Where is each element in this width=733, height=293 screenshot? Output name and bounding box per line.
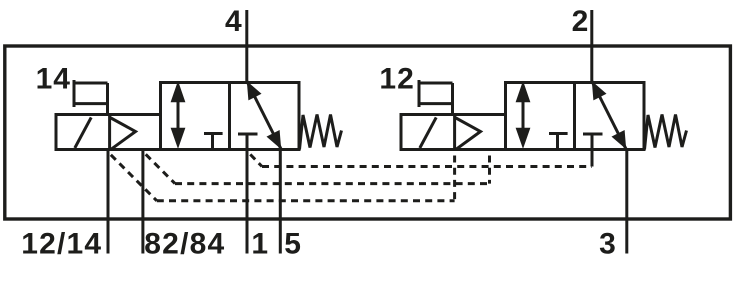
wire: pilot port 12/14 line: [107, 150, 110, 254]
valve V2 blocked port T (right chamber): [583, 134, 603, 162]
valve V2 body: [506, 83, 645, 150]
wire: pilot exhaust 82/84 line: [141, 150, 144, 254]
valve V1 flow arrow (right chamber, diagonal double arrow): [247, 81, 281, 149]
solenoid coil K2 slash: [420, 117, 436, 148]
svg-text:5: 5: [284, 227, 301, 260]
solenoid coil K2 box: [401, 115, 506, 150]
svg-text:4: 4: [225, 5, 242, 38]
solenoid coil K1 slash: [75, 117, 91, 148]
svg-text:2: 2: [572, 5, 589, 38]
pilot amplifier triangle V1: [110, 118, 136, 150]
wire: port 5 line: [279, 150, 282, 254]
wire: port 3 line: [625, 150, 628, 254]
wire: port 2 line: [590, 10, 593, 84]
valve V1 blocked port T (right chamber): [238, 134, 258, 150]
solenoid coil K1 box: [56, 115, 161, 150]
valve V1 body: [161, 83, 300, 150]
valve V1 flow arrow (left chamber, vertical double arrow): [171, 81, 186, 149]
wire: port 1 line (T stem continuation): [246, 150, 249, 254]
svg-text:1: 1: [251, 227, 268, 260]
dashed pilot line: V1 port 12/14 to V2 pilot: [108, 152, 455, 201]
valve V2 blocked port T (left chamber): [549, 134, 568, 149]
valve V2 flow arrow (left chamber, vertical double arrow): [516, 81, 531, 149]
svg-text:14: 14: [36, 63, 71, 96]
valve V1 chamber separator: [228, 83, 231, 150]
solenoid K1 divider (pilot stage wall): [108, 115, 111, 150]
dashed pilot line: V1 port 82/84 to V2 pilot exhaust: [143, 152, 490, 184]
valve V1 return spring: [300, 115, 342, 150]
svg-text:82/84: 82/84: [144, 227, 225, 260]
pilot valve symbol (14) rectangle: [74, 80, 108, 115]
dashed pilot line: V1 port 1 to V2 supply: [248, 152, 593, 167]
pilot valve symbol (12) rectangle: [419, 80, 453, 115]
manifold enclosure frame: [5, 46, 731, 219]
valve V2 chamber separator: [573, 83, 576, 150]
svg-text:12: 12: [379, 63, 414, 96]
valve V1 blocked port T (left chamber): [204, 134, 223, 149]
svg-text:12/14: 12/14: [21, 227, 102, 260]
valve V2 flow arrow (right chamber, diagonal double arrow): [592, 81, 626, 149]
pilot amplifier triangle V2: [455, 118, 481, 150]
valve V2 return spring: [645, 115, 687, 150]
wire: port 4 line: [245, 10, 248, 84]
svg-text:3: 3: [599, 227, 616, 260]
solenoid K2 divider (pilot stage wall): [453, 115, 456, 150]
